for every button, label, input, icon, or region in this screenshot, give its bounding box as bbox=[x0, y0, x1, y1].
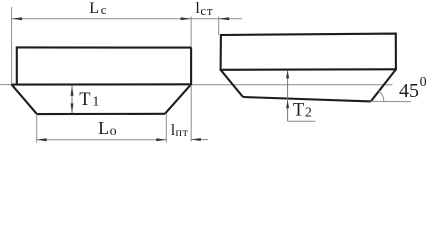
weld bead rectangle 1 right edge bbox=[190, 47, 192, 84]
surface line right segment crossing second weld pool bbox=[191, 84, 392, 86]
weld pool 1 bottom line bbox=[37, 113, 165, 115]
svg-text:Lo: Lo bbox=[98, 118, 117, 139]
angle reference line at pool 2 bottom right bbox=[371, 100, 412, 102]
weld pool 1 left slope bbox=[12, 85, 37, 115]
weld bead rectangle 2 outline bbox=[221, 34, 396, 70]
weld pool 2 bottom line bbox=[243, 97, 371, 101]
leader underline for T2 bbox=[288, 120, 316, 122]
arrowhead Lo left bbox=[37, 138, 47, 141]
svg-text:T1: T1 bbox=[79, 90, 99, 110]
weld pool 1 right slope bbox=[165, 84, 191, 114]
svg-text:T2: T2 bbox=[293, 101, 312, 121]
arrowhead Lo right bbox=[156, 138, 166, 141]
extension line right of Lc (above weld pool right corner) bbox=[190, 17, 192, 48]
svg-text:lпт: lпт bbox=[171, 122, 189, 139]
extension line l_pt right bbox=[190, 85, 192, 142]
extension line left of Lc bbox=[11, 7, 13, 85]
dimension T1 vertical line bbox=[71, 86, 73, 114]
extension line Lo right / l_pt left bbox=[165, 114, 167, 143]
weld bead rectangle 1 top edge bbox=[16, 46, 191, 48]
arrowhead l_pt bbox=[191, 138, 201, 141]
arrowhead l_st pointing left bbox=[219, 17, 230, 20]
extension line for l_st right side bbox=[218, 17, 220, 35]
weld bead rectangle 1 left edge bbox=[16, 47, 18, 84]
arrowhead T2 upper pointing up bbox=[286, 70, 289, 78]
arrowhead Lc right bbox=[181, 17, 192, 20]
dimension line Lc with tail for l_st bbox=[12, 18, 242, 20]
arrowhead T1 down bbox=[71, 103, 74, 113]
surface line left segment bbox=[0, 84, 12, 86]
extension line Lo left bbox=[36, 114, 38, 143]
weld pool 1 top line (surface level) bbox=[12, 83, 192, 85]
dimension line Lo bbox=[37, 139, 167, 141]
dimension T2 vertical line bbox=[287, 71, 289, 122]
dimension tail l_pt with arrow pointing left bbox=[191, 139, 208, 141]
angle arc 45 degrees bbox=[378, 91, 383, 102]
weld pool 2 right slope bbox=[371, 69, 396, 101]
svg-text:450: 450 bbox=[399, 75, 427, 102]
arrowhead T1 up bbox=[71, 86, 74, 96]
svg-text:Lc: Lc bbox=[89, 0, 107, 17]
svg-text:lст: lст bbox=[195, 0, 213, 18]
arrowhead T2 lower pointing up bbox=[286, 100, 289, 108]
arrowhead Lc left bbox=[12, 17, 23, 20]
weld pool 2 left slope bbox=[221, 70, 243, 97]
